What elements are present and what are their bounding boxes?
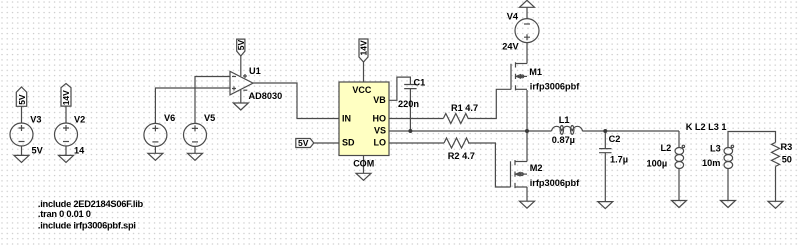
svg-text:.tran 0 0.01 0: .tran 0 0.01 0 — [38, 209, 91, 219]
svg-text:L1: L1 — [559, 115, 570, 125]
svg-text:10m: 10m — [702, 158, 720, 168]
svg-text:V4: V4 — [507, 12, 519, 22]
svg-text:100µ: 100µ — [647, 159, 668, 169]
svg-text:14V: 14V — [359, 40, 369, 55]
svg-text:U1: U1 — [249, 66, 261, 76]
svg-text:V5: V5 — [204, 113, 215, 123]
svg-text:V3: V3 — [30, 115, 41, 125]
svg-text:14V: 14V — [61, 90, 71, 105]
svg-text:50: 50 — [782, 154, 792, 164]
svg-text:1.7µ: 1.7µ — [610, 155, 628, 165]
svg-text:24V: 24V — [502, 41, 519, 51]
svg-text:V6: V6 — [164, 113, 175, 123]
svg-text:R2 4.7: R2 4.7 — [448, 151, 475, 161]
svg-text:L2: L2 — [661, 143, 672, 153]
svg-text:14: 14 — [74, 146, 85, 156]
svg-text:irfp3006pbf: irfp3006pbf — [530, 82, 580, 92]
svg-text:VB: VB — [373, 95, 386, 105]
svg-text:irfp3006pbf: irfp3006pbf — [530, 178, 580, 188]
svg-text:220n: 220n — [398, 99, 419, 109]
svg-text:C2: C2 — [609, 134, 621, 144]
svg-text:V2: V2 — [74, 115, 85, 125]
svg-text:SD: SD — [342, 138, 355, 148]
svg-text:AD8030: AD8030 — [249, 91, 283, 101]
svg-text:5V: 5V — [17, 94, 27, 105]
svg-text:R3: R3 — [781, 142, 793, 152]
svg-text:C1: C1 — [414, 78, 426, 88]
svg-text:.include 2ED2184S06F.lib: .include 2ED2184S06F.lib — [38, 199, 144, 209]
svg-text:IN: IN — [342, 114, 351, 124]
svg-text:5V: 5V — [236, 39, 246, 50]
svg-text:LO: LO — [374, 138, 387, 148]
svg-text:0.87µ: 0.87µ — [552, 135, 575, 145]
svg-text:L3: L3 — [710, 144, 721, 154]
svg-text:M2: M2 — [530, 163, 543, 173]
svg-text:COM: COM — [353, 158, 374, 168]
svg-text:5V: 5V — [298, 138, 309, 148]
svg-text:5V: 5V — [32, 145, 44, 155]
svg-text:K L2 L3 1: K L2 L3 1 — [686, 122, 727, 132]
svg-text:R1 4.7: R1 4.7 — [451, 103, 478, 113]
svg-text:VS: VS — [374, 126, 386, 136]
svg-text:HO: HO — [373, 114, 387, 124]
svg-text:VCC: VCC — [352, 85, 372, 95]
svg-text:.include irfp3006pbf.spi: .include irfp3006pbf.spi — [38, 220, 136, 230]
svg-text:M1: M1 — [529, 67, 542, 77]
